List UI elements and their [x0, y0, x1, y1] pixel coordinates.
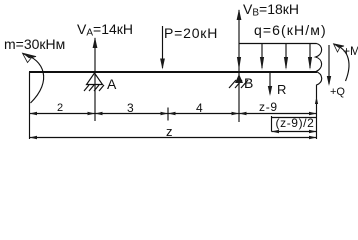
- svg-text:z: z: [166, 124, 173, 139]
- svg-text:(z-9)/2: (z-9)/2: [276, 116, 315, 130]
- svg-text:+M: +M: [343, 44, 358, 58]
- svg-text:VA=14кН: VA=14кН: [77, 21, 133, 39]
- svg-text:VB=18кН: VB=18кН: [243, 1, 299, 19]
- svg-text:B: B: [244, 75, 253, 91]
- svg-text:3: 3: [127, 101, 134, 115]
- svg-text:P=20кН: P=20кН: [164, 25, 218, 41]
- svg-text:+Q: +Q: [330, 86, 345, 98]
- svg-text:R: R: [277, 82, 286, 97]
- svg-text:A: A: [107, 76, 117, 92]
- svg-text:m=30кНм: m=30кНм: [4, 36, 65, 52]
- svg-text:2: 2: [57, 102, 63, 114]
- svg-text:z-9: z-9: [259, 100, 278, 114]
- svg-text:q=6(кН/м): q=6(кН/м): [254, 22, 327, 38]
- svg-text:4: 4: [196, 101, 203, 115]
